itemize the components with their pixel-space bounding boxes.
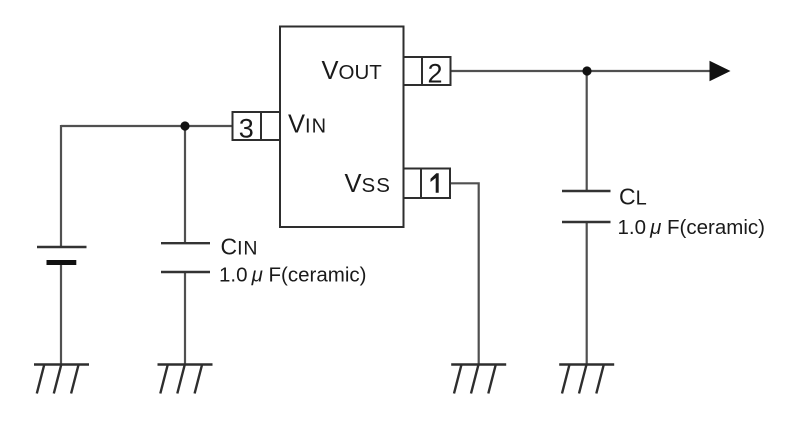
ground G2 (CIN) xyxy=(158,365,213,394)
wire: battery bottom lead to ground xyxy=(60,264,62,364)
ground G3 (VSS) xyxy=(451,365,506,394)
svg-text:CIN: CIN xyxy=(221,234,259,260)
wire: CIN top lead xyxy=(184,126,186,243)
arrow: output terminal xyxy=(710,61,731,81)
wire: input rail from battery to pin 3 xyxy=(61,125,233,127)
node: output junction dot xyxy=(582,66,591,75)
wire: CL bottom lead to ground xyxy=(586,223,588,365)
pin 2 box xyxy=(404,57,451,89)
ground G4 (CL) xyxy=(559,365,614,394)
svg-text:CL: CL xyxy=(619,184,647,210)
svg-text:3: 3 xyxy=(239,114,254,144)
svg-text:1.0 μ F(ceramic): 1.0 μ F(ceramic) xyxy=(618,216,765,239)
capacitor CL xyxy=(562,191,611,222)
svg-text:1.0 μ F(ceramic): 1.0 μ F(ceramic) xyxy=(219,264,366,287)
wire: CL top lead xyxy=(586,71,588,191)
node: input junction dot xyxy=(180,121,189,130)
pin 3 box xyxy=(233,112,281,144)
wire: output rail from pin 2 to arrow xyxy=(451,70,712,72)
battery B1 xyxy=(37,247,87,265)
wire: CIN bottom lead to ground xyxy=(184,273,186,365)
svg-text:VIN: VIN xyxy=(288,111,327,139)
wire: VSS pin 1 jog to ground xyxy=(450,183,479,364)
svg-text:VOUT: VOUT xyxy=(322,57,383,85)
svg-text:VSS: VSS xyxy=(345,170,391,198)
pin 1 box xyxy=(404,169,451,199)
op-amp U1: regulator IC body xyxy=(280,27,404,228)
wire: battery top lead xyxy=(60,125,62,246)
capacitor CIN xyxy=(161,243,210,272)
ground G1 (battery) xyxy=(34,365,89,394)
svg-text:2: 2 xyxy=(427,59,442,89)
